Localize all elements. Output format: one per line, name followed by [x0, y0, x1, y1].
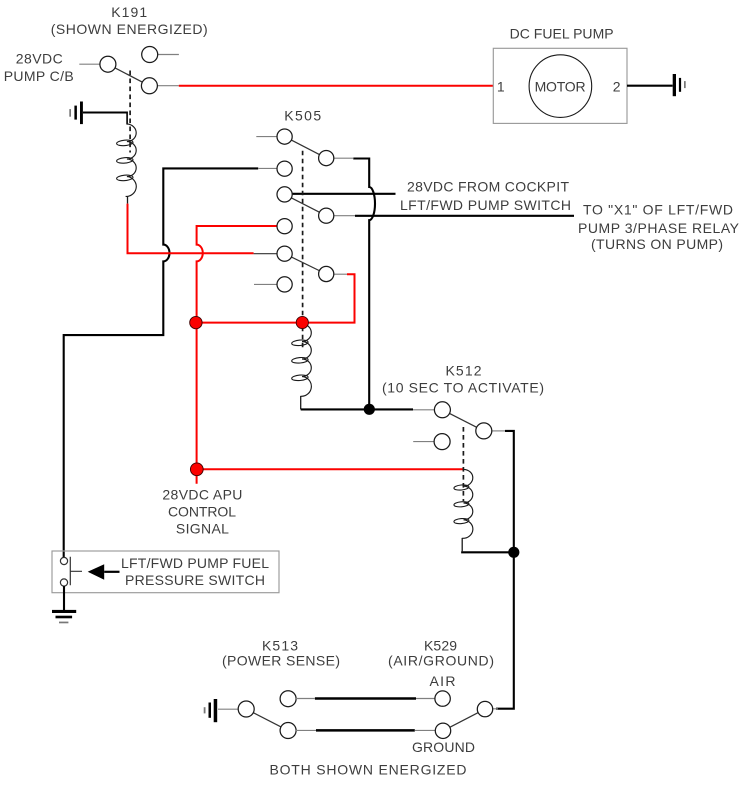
ground below pressure switch [52, 610, 76, 623]
svg-text:PUMP C/B: PUMP C/B [4, 68, 74, 84]
relay K505 R1 lead [334, 157, 354, 159]
svg-text:(AIR/GROUND): (AIR/GROUND) [388, 652, 494, 668]
relay K512 coil L3 [454, 469, 473, 551]
relay K505 row6 stub [254, 283, 277, 285]
DC fuel pump box [493, 48, 627, 123]
relay K191 NC contact stub [158, 54, 179, 56]
junction dot J1 [364, 404, 375, 415]
relay K505 row1 stub [256, 136, 277, 138]
svg-text:DC FUEL PUMP: DC FUEL PUMP [510, 25, 614, 41]
wire to X1 of pump 3-phase relay [355, 215, 574, 217]
svg-text:PRESSURE SWITCH: PRESSURE SWITCH [125, 572, 265, 588]
wire red APU node to K512 coil [197, 468, 464, 470]
wire K505 row2 to pressure switch [64, 168, 259, 557]
svg-text:K505: K505 [284, 107, 321, 123]
relay K512 C1 pin [434, 402, 450, 418]
svg-text:GROUND: GROUND [412, 739, 475, 755]
relay K191 fixed contact pin [100, 56, 116, 72]
lead air line right [416, 698, 435, 700]
relay K191 actuator dashed line [129, 71, 131, 153]
relay K513 switch arm [246, 709, 288, 731]
relay K505 switch arm 3 [285, 254, 327, 274]
ground at K513 [204, 699, 218, 722]
ground at motor [673, 74, 686, 96]
wire K505 R1 to junction J1 [353, 159, 375, 405]
svg-text:K513: K513 [262, 638, 298, 654]
lead ground line right [415, 729, 436, 731]
relay K513 air-side pin [280, 691, 296, 707]
relay K505 row2 lead [258, 167, 277, 169]
relay K505 R2 pin [319, 208, 334, 223]
wire 28VDC from cockpit [292, 193, 396, 195]
relay K529 air pin [435, 691, 450, 706]
svg-text:28VDC FROM COCKPIT: 28VDC FROM COCKPIT [407, 179, 569, 195]
relay K191 coil wire from ground [83, 111, 128, 113]
red junction dot 28VDC APU node [190, 463, 203, 476]
relay K505 row1 pin [277, 129, 292, 144]
wire red K191 to motor pin 1 [179, 85, 493, 87]
wire red K191 coil to K505 row5 [128, 204, 254, 254]
relay K505 row3 pin [277, 187, 292, 202]
red junction dot APU upper [190, 316, 202, 328]
relay K505 R3 pin [319, 266, 334, 281]
svg-text:SIGNAL: SIGNAL [176, 521, 229, 537]
pressure switch actuator bar [70, 557, 82, 585]
relay K505 row5 pin [277, 246, 292, 261]
lead K505 row5 [254, 253, 278, 255]
wire motor pin 2 to ground [627, 85, 673, 87]
lead ground line left [296, 729, 316, 731]
lead air line left [296, 698, 315, 700]
relay K505 R3 lead [332, 273, 347, 275]
svg-text:LFT/FWD PUMP SWITCH: LFT/FWD PUMP SWITCH [400, 197, 571, 213]
wire K513 to K529 air line [315, 697, 416, 700]
svg-text:(10 SEC TO ACTIVATE): (10 SEC TO ACTIVATE) [382, 380, 544, 396]
relay K191 NO contact lead [157, 85, 179, 87]
svg-text:(TURNS ON PUMP): (TURNS ON PUMP) [591, 236, 723, 252]
relay K512 C2 pin [476, 423, 492, 439]
relay K191 NO contact pin [141, 78, 157, 94]
svg-text:K191: K191 [111, 4, 147, 20]
motor M1 circle [529, 55, 592, 118]
svg-text:AIR: AIR [430, 673, 456, 689]
ground at K191 coil [69, 102, 83, 125]
relay K505 row2 pin [277, 161, 292, 176]
pressure switch contact upper [60, 557, 67, 564]
relay K529 gnd pin [435, 723, 450, 738]
lead K512 C1 [413, 409, 435, 411]
wire K513 to K529 ground line [316, 729, 415, 732]
relay K529 movable pin [477, 701, 492, 716]
pressure switch box [52, 551, 279, 593]
wire pressure switch to ground [63, 586, 65, 610]
relay K505 actuator dashed line [302, 151, 304, 349]
relay K505 switch arm 1 [285, 137, 327, 159]
relay K513 gnd-side pin [280, 723, 296, 739]
wire red K505 R3 to coil node [197, 274, 355, 322]
svg-text:(POWER SENSE): (POWER SENSE) [222, 652, 340, 668]
relay K505 coil L2 [291, 324, 311, 409]
relay K512 C3 stub [413, 441, 434, 443]
relay K513 movable pin [238, 701, 254, 717]
svg-text:PUMP 3/PHASE RELAY: PUMP 3/PHASE RELAY [578, 220, 740, 236]
relay K512 switch arm [442, 410, 483, 431]
svg-text:(SHOWN ENERGIZED): (SHOWN ENERGIZED) [51, 21, 208, 37]
wire K512 coil to K529 wire [462, 551, 514, 552]
relay K505 switch arm 2 [285, 194, 327, 215]
relay K529 switch arm [443, 709, 485, 731]
svg-text:CONTROL: CONTROL [168, 503, 236, 519]
relay K512 C2 lead [492, 430, 505, 432]
relay K505 row4 pin [277, 219, 292, 234]
relay K505 row6 pin [277, 277, 292, 292]
relay K505 R2 lead [334, 215, 355, 217]
svg-text:BOTH SHOWN ENERGIZED: BOTH SHOWN ENERGIZED [270, 762, 467, 778]
red junction dot K505 coil [296, 316, 308, 328]
relay K191 switch arm [108, 64, 149, 86]
relay K512 actuator dashed line [462, 427, 464, 501]
svg-text:2: 2 [613, 78, 621, 94]
relay K505 R1 pin [319, 151, 334, 166]
svg-text:MOTOR: MOTOR [535, 78, 586, 94]
relay K512 C3 pin [434, 434, 450, 450]
pressure switch contact lower [60, 579, 67, 586]
lead K513 ground [218, 708, 238, 710]
wire K512 C2 down to K529 [496, 431, 514, 709]
svg-text:28VDC APU: 28VDC APU [162, 486, 242, 502]
relay K191 NC contact pin [142, 47, 158, 63]
lead K529 movable [493, 708, 498, 710]
pressure switch arrow [88, 564, 105, 580]
svg-text:LFT/FWD PUMP FUEL: LFT/FWD PUMP FUEL [121, 555, 269, 571]
svg-text:TO "X1" OF LFT/FWD: TO "X1" OF LFT/FWD [583, 201, 733, 217]
wire K505 coil to K512 contact [301, 408, 413, 410]
svg-text:28VDC: 28VDC [16, 51, 63, 67]
svg-text:1: 1 [497, 78, 505, 94]
wire red K505 row4 down to APU node [197, 226, 278, 484]
svg-text:K512: K512 [446, 362, 482, 378]
relay K191 coil L1 [116, 124, 136, 204]
junction dot J2 [508, 547, 519, 558]
relay K191 contact lead 28VDC [79, 63, 100, 65]
svg-text:K529: K529 [424, 638, 457, 654]
